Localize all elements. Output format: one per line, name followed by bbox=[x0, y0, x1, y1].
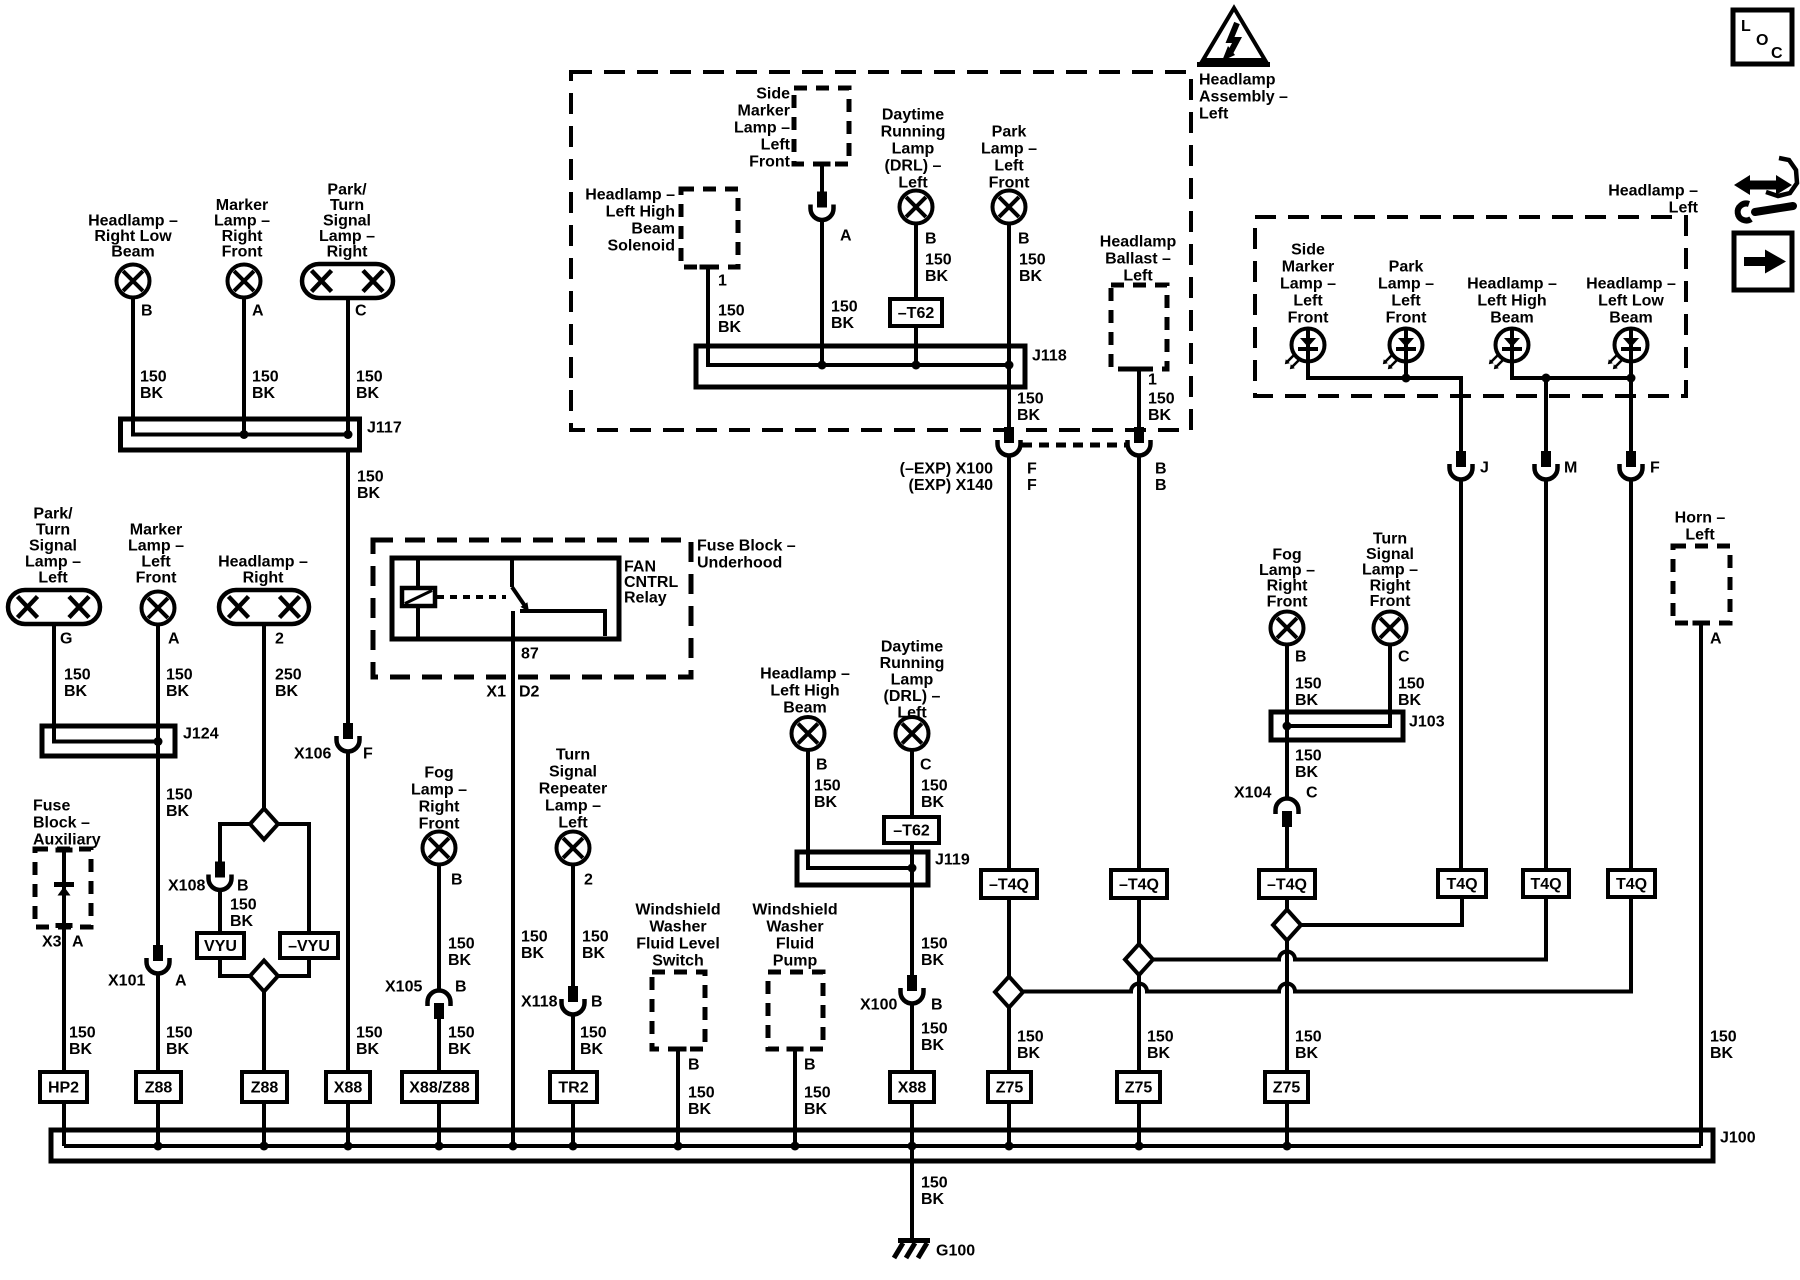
svg-text:Running: Running bbox=[880, 655, 945, 672]
svg-text:Right Low: Right Low bbox=[94, 228, 172, 245]
svg-text:Headlamp –: Headlamp – bbox=[760, 665, 850, 682]
svg-text:Right: Right bbox=[419, 798, 461, 815]
svg-text:B: B bbox=[688, 1056, 700, 1073]
svg-text:Marker: Marker bbox=[738, 102, 790, 119]
svg-text:X100: X100 bbox=[860, 996, 897, 1013]
junction dot J117 at park/turn wire bbox=[344, 430, 353, 439]
svg-text:Turn: Turn bbox=[1373, 530, 1407, 547]
svg-text:BK: BK bbox=[814, 794, 838, 811]
wire X88 to J100 bbox=[346, 1102, 350, 1146]
svg-text:150: 150 bbox=[580, 1024, 607, 1041]
junction dot J100 x=158 bbox=[154, 1142, 163, 1151]
fuse element inside Fuse Block - Auxiliary bbox=[62, 850, 66, 1072]
svg-text:150: 150 bbox=[1398, 675, 1425, 692]
svg-text:X104: X104 bbox=[1234, 784, 1271, 801]
wire Z75 to J100 bbox=[1285, 1102, 1289, 1146]
terminal code X88/Z88 bbox=[402, 1072, 477, 1102]
svg-text:A: A bbox=[252, 302, 264, 319]
svg-text:2: 2 bbox=[275, 630, 284, 647]
splice diamond above VYU bbox=[250, 809, 278, 840]
svg-text:1: 1 bbox=[1148, 371, 1157, 388]
splice J124 bbox=[42, 726, 175, 756]
wire washer pump to J100 bbox=[793, 1051, 797, 1146]
wire park lamp through J118 to X100 bbox=[1007, 224, 1011, 428]
relay coil bbox=[402, 588, 435, 606]
svg-text:J117: J117 bbox=[367, 419, 402, 436]
svg-text:Headlamp –: Headlamp – bbox=[585, 186, 675, 203]
code box -T62 (lower) bbox=[884, 817, 939, 843]
junction dot J124 bbox=[154, 737, 163, 746]
svg-text:BK: BK bbox=[252, 385, 276, 402]
svg-text:150: 150 bbox=[448, 1024, 475, 1041]
wire fog lamp to X105 bbox=[437, 865, 441, 992]
svg-text:CNTRL: CNTRL bbox=[624, 574, 678, 591]
wire solenoid to J118 bbox=[708, 269, 1009, 365]
svg-text:BK: BK bbox=[921, 1191, 945, 1208]
svg-text:F: F bbox=[1027, 477, 1037, 494]
svg-text:Lamp –: Lamp – bbox=[411, 781, 467, 798]
svg-text:Marker: Marker bbox=[1282, 258, 1334, 275]
wire HP2 to J100 bbox=[62, 1102, 66, 1146]
svg-text:BK: BK bbox=[688, 1101, 712, 1118]
svg-text:BK: BK bbox=[356, 385, 380, 402]
svg-text:Assembly –: Assembly – bbox=[1199, 88, 1288, 105]
svg-text:BK: BK bbox=[1398, 692, 1422, 709]
svg-text:Running: Running bbox=[881, 123, 946, 140]
wire turn signal to J103 bbox=[1287, 645, 1390, 727]
svg-text:BK: BK bbox=[140, 385, 164, 402]
wire rail T4Q F to X100 diamond bbox=[1023, 897, 1631, 992]
wire X104 to -T4Q bbox=[1285, 826, 1289, 870]
icon arrow box bbox=[1734, 233, 1792, 290]
svg-text:Signal: Signal bbox=[549, 763, 597, 780]
svg-text:B: B bbox=[591, 993, 603, 1010]
wire J to T4Q bbox=[1459, 480, 1463, 871]
svg-text:Park: Park bbox=[1389, 258, 1424, 275]
svg-text:Left: Left bbox=[1123, 267, 1153, 284]
svg-text:Front: Front bbox=[1267, 593, 1309, 610]
junction dot J100 x=1009 bbox=[1005, 1142, 1014, 1151]
wire Park/Turn Signal Lamp Left to J124 bbox=[54, 624, 158, 742]
terminal code Z88 bbox=[136, 1072, 181, 1102]
code box T4Q (F) bbox=[1608, 870, 1655, 897]
wire side marker to connector bbox=[820, 166, 824, 192]
code box -T62 (upper) bbox=[890, 299, 942, 326]
relay switch common lead bbox=[510, 558, 514, 587]
svg-text:Relay: Relay bbox=[624, 589, 667, 606]
svg-text:BK: BK bbox=[166, 803, 190, 820]
splice J103 bbox=[1271, 712, 1403, 740]
wire Z75 to J100 bbox=[1007, 1102, 1011, 1146]
svg-text:M: M bbox=[1564, 459, 1577, 476]
svg-text:150: 150 bbox=[718, 302, 745, 319]
svg-text:Beam: Beam bbox=[631, 220, 675, 237]
wire ballast to connector B bbox=[1137, 371, 1141, 427]
svg-text:Right: Right bbox=[222, 228, 264, 245]
svg-text:Lamp –: Lamp – bbox=[1362, 562, 1418, 579]
svg-text:Ballast –: Ballast – bbox=[1105, 250, 1171, 267]
wire X101 to Z88 bbox=[156, 974, 160, 1073]
svg-text:X105: X105 bbox=[385, 978, 422, 995]
svg-text:150: 150 bbox=[921, 935, 948, 952]
svg-text:BK: BK bbox=[804, 1101, 828, 1118]
junction dot J119 bbox=[908, 864, 917, 873]
svg-text:X118: X118 bbox=[521, 993, 558, 1010]
svg-text:B: B bbox=[816, 756, 828, 773]
junction dot J100 x=1287 bbox=[1283, 1142, 1292, 1151]
terminal code TR2 bbox=[550, 1072, 597, 1102]
svg-text:–T62: –T62 bbox=[893, 822, 930, 839]
svg-text:Right: Right bbox=[243, 569, 285, 586]
svg-text:150: 150 bbox=[64, 666, 91, 683]
svg-text:150: 150 bbox=[166, 1024, 193, 1041]
svg-text:B: B bbox=[1018, 230, 1030, 247]
svg-text:BK: BK bbox=[521, 945, 545, 962]
svg-text:Pump: Pump bbox=[773, 952, 818, 969]
svg-text:T4Q: T4Q bbox=[1446, 876, 1477, 893]
junction dot J100 x=348 bbox=[344, 1142, 353, 1151]
svg-text:BK: BK bbox=[69, 1041, 93, 1058]
svg-text:Lamp –: Lamp – bbox=[734, 119, 790, 136]
svg-text:Side: Side bbox=[1291, 241, 1325, 258]
svg-text:VYU: VYU bbox=[204, 938, 237, 955]
splice diamond ballast line bbox=[1125, 944, 1153, 975]
svg-text:A: A bbox=[1710, 630, 1722, 647]
svg-text:150: 150 bbox=[356, 1024, 383, 1041]
svg-text:Marker: Marker bbox=[130, 521, 182, 538]
connector X105 bbox=[428, 991, 451, 1019]
svg-text:Signal: Signal bbox=[1366, 546, 1414, 563]
svg-text:F: F bbox=[1027, 460, 1037, 477]
svg-text:Front: Front bbox=[749, 153, 791, 170]
svg-text:Fluid Level: Fluid Level bbox=[636, 935, 720, 952]
svg-text:B: B bbox=[1155, 477, 1167, 494]
junction dot J100 x=795 bbox=[791, 1142, 800, 1151]
svg-text:150: 150 bbox=[1295, 747, 1322, 764]
svg-text:BK: BK bbox=[921, 952, 945, 969]
svg-text:BK: BK bbox=[1295, 1045, 1319, 1062]
wire repeater lamp to X118 bbox=[571, 865, 575, 987]
svg-text:Beam: Beam bbox=[783, 699, 827, 716]
wire -T62 through J119 to X100 bbox=[910, 843, 914, 976]
relay actuation dashed link bbox=[437, 595, 506, 599]
wire X106 to X88 bbox=[346, 752, 350, 1073]
svg-text:Fog: Fog bbox=[424, 764, 453, 781]
svg-text:Left: Left bbox=[1293, 292, 1323, 309]
junction dot J100 x=264 bbox=[260, 1142, 269, 1151]
svg-text:J: J bbox=[1480, 459, 1489, 476]
svg-text:B: B bbox=[1295, 648, 1307, 665]
svg-text:BK: BK bbox=[1148, 407, 1172, 424]
svg-text:Repeater: Repeater bbox=[539, 780, 607, 797]
wire Marker Lamp Left Front through J124 to X101 bbox=[156, 625, 160, 946]
svg-text:Headlamp: Headlamp bbox=[1199, 71, 1276, 88]
svg-text:Left Low: Left Low bbox=[1598, 292, 1664, 309]
connector A inside headlamp assembly bbox=[811, 192, 834, 221]
svg-text:Headlamp –: Headlamp – bbox=[1586, 275, 1676, 292]
svg-text:150: 150 bbox=[1710, 1028, 1737, 1045]
svg-text:X88/Z88: X88/Z88 bbox=[409, 1079, 470, 1096]
junction dot J100 x=573 bbox=[569, 1142, 578, 1151]
svg-text:BK: BK bbox=[166, 683, 190, 700]
svg-text:Front: Front bbox=[222, 243, 264, 260]
svg-text:250: 250 bbox=[275, 666, 302, 683]
connector F bbox=[1620, 451, 1643, 480]
svg-text:BK: BK bbox=[1017, 407, 1041, 424]
svg-text:J124: J124 bbox=[183, 725, 219, 742]
svg-text:Beam: Beam bbox=[1490, 309, 1534, 326]
svg-text:BK: BK bbox=[921, 1037, 945, 1054]
svg-text:Left High: Left High bbox=[1477, 292, 1546, 309]
svg-text:Right: Right bbox=[1267, 578, 1309, 595]
wire X88 to J100 and ground bbox=[910, 1102, 914, 1239]
svg-text:HP2: HP2 bbox=[48, 1079, 79, 1096]
terminal code HP2 bbox=[40, 1072, 87, 1102]
junction dot J118 side marker bbox=[818, 361, 827, 370]
svg-text:F: F bbox=[363, 745, 373, 762]
svg-text:Front: Front bbox=[1386, 309, 1428, 326]
wire J117 to X106 bbox=[346, 450, 350, 724]
code box T4Q (M) bbox=[1523, 870, 1569, 897]
wire -T4Q to diamond bbox=[1007, 898, 1011, 977]
svg-text:Lamp –: Lamp – bbox=[545, 797, 601, 814]
svg-text:Daytime: Daytime bbox=[881, 638, 943, 655]
svg-text:150: 150 bbox=[1148, 390, 1175, 407]
svg-text:150: 150 bbox=[831, 298, 858, 315]
svg-text:B: B bbox=[804, 1056, 816, 1073]
svg-text:B: B bbox=[237, 877, 249, 894]
svg-text:87: 87 bbox=[521, 645, 539, 662]
connector X106 bbox=[337, 723, 360, 752]
wire X88/Z88 to J100 bbox=[437, 1102, 441, 1146]
wire horn to J100 bbox=[1699, 625, 1703, 1146]
svg-text:F: F bbox=[1650, 459, 1660, 476]
svg-text:Fog: Fog bbox=[1272, 546, 1301, 563]
svg-text:B: B bbox=[925, 230, 937, 247]
wire F to T4Q bbox=[1629, 480, 1633, 871]
svg-text:Lamp –: Lamp – bbox=[25, 553, 81, 570]
svg-text:BK: BK bbox=[580, 1041, 604, 1058]
code box VYU bbox=[197, 933, 244, 958]
wire X105 to X88/Z88 bbox=[437, 1018, 441, 1072]
warning triangle icon bbox=[1197, 8, 1270, 65]
svg-text:X88: X88 bbox=[898, 1079, 927, 1096]
svg-text:Fluid: Fluid bbox=[776, 935, 814, 952]
svg-text:2: 2 bbox=[584, 871, 593, 888]
svg-text:J103: J103 bbox=[1409, 713, 1445, 730]
wire diamond to X108 branch bbox=[220, 824, 250, 862]
svg-text:X108: X108 bbox=[168, 877, 205, 894]
svg-text:Headlamp –: Headlamp – bbox=[218, 553, 308, 570]
relay U1 FAN CNTRL Relay body bbox=[392, 558, 619, 639]
connector M bbox=[1535, 451, 1558, 480]
svg-text:–T62: –T62 bbox=[898, 305, 935, 322]
terminal code Z75 (left) bbox=[988, 1072, 1031, 1102]
svg-text:Lamp –: Lamp – bbox=[319, 228, 375, 245]
svg-text:Windshield: Windshield bbox=[752, 901, 837, 918]
svg-text:Washer: Washer bbox=[766, 918, 823, 935]
svg-text:150: 150 bbox=[582, 928, 609, 945]
svg-text:BK: BK bbox=[166, 1041, 190, 1058]
svg-text:Front: Front bbox=[1288, 309, 1330, 326]
svg-text:X88: X88 bbox=[334, 1079, 363, 1096]
wire Z88 to J100 bbox=[156, 1102, 160, 1146]
svg-text:Washer: Washer bbox=[649, 918, 706, 935]
svg-text:–T4Q: –T4Q bbox=[1267, 876, 1307, 893]
svg-text:Lamp: Lamp bbox=[892, 140, 935, 157]
relay coil leads bbox=[416, 558, 420, 639]
svg-text:B: B bbox=[451, 871, 463, 888]
svg-text:Left: Left bbox=[141, 553, 171, 570]
junction dot J100 x=439 bbox=[435, 1142, 444, 1151]
svg-text:B: B bbox=[1155, 460, 1167, 477]
svg-text:O: O bbox=[1756, 32, 1768, 49]
svg-text:X106: X106 bbox=[294, 745, 331, 762]
svg-text:150: 150 bbox=[1147, 1028, 1174, 1045]
connector J bbox=[1450, 451, 1473, 480]
svg-text:(–EXP) X100: (–EXP) X100 bbox=[900, 460, 993, 477]
svg-text:BK: BK bbox=[1295, 764, 1319, 781]
svg-text:BK: BK bbox=[921, 794, 945, 811]
svg-text:150: 150 bbox=[814, 777, 841, 794]
svg-text:150: 150 bbox=[166, 786, 193, 803]
svg-text:J118: J118 bbox=[1032, 347, 1067, 364]
splice diamond below VYU bbox=[250, 961, 278, 992]
svg-text:150: 150 bbox=[230, 896, 257, 913]
svg-text:Z88: Z88 bbox=[145, 1079, 173, 1096]
wire low beam to connector F bbox=[1629, 362, 1633, 452]
svg-text:BK: BK bbox=[64, 683, 88, 700]
svg-text:Fuse: Fuse bbox=[33, 797, 70, 814]
svg-text:Headlamp –: Headlamp – bbox=[1608, 182, 1698, 199]
wire high beam to J119 bbox=[808, 750, 912, 868]
svg-text:Left: Left bbox=[1391, 292, 1421, 309]
svg-text:Lamp –: Lamp – bbox=[214, 212, 270, 229]
svg-text:150: 150 bbox=[1017, 390, 1044, 407]
svg-text:FAN: FAN bbox=[624, 558, 656, 575]
svg-text:Z75: Z75 bbox=[996, 1079, 1024, 1096]
svg-text:150: 150 bbox=[357, 468, 384, 485]
junction dot J100 x=678 bbox=[674, 1142, 683, 1151]
svg-text:X3: X3 bbox=[42, 933, 62, 950]
svg-text:BK: BK bbox=[1017, 1045, 1041, 1062]
svg-text:Lamp –: Lamp – bbox=[1378, 275, 1434, 292]
wire Marker Lamp Right Front to J117 bbox=[242, 298, 246, 435]
connector X104 bbox=[1276, 799, 1299, 828]
svg-text:Lamp –: Lamp – bbox=[1259, 562, 1315, 579]
svg-text:A: A bbox=[840, 227, 852, 244]
svg-text:G: G bbox=[60, 630, 72, 647]
wire lower diamond to Z88 bbox=[262, 992, 266, 1073]
svg-text:C: C bbox=[1398, 648, 1410, 665]
connector ballast pin B bbox=[1128, 427, 1151, 456]
svg-text:T4Q: T4Q bbox=[1616, 876, 1647, 893]
junction dot J100 x=912 bbox=[908, 1142, 917, 1151]
svg-text:C: C bbox=[355, 302, 367, 319]
wire X108 to VYU bbox=[218, 890, 222, 933]
svg-text:D2: D2 bbox=[519, 683, 540, 700]
wire M drop bbox=[1544, 378, 1548, 452]
svg-text:Headlamp –: Headlamp – bbox=[88, 212, 178, 229]
relay contact wire bbox=[520, 611, 605, 636]
wire VYU to lower diamond bbox=[220, 958, 250, 976]
svg-text:J119: J119 bbox=[935, 851, 970, 868]
svg-text:Beam: Beam bbox=[111, 243, 155, 260]
splice J117 bbox=[121, 419, 360, 450]
icon diagnostic arrows and wrench bbox=[1734, 158, 1797, 221]
wire ballast B to -T4Q bbox=[1137, 456, 1141, 871]
svg-text:Left: Left bbox=[38, 569, 68, 586]
svg-text:Fuse Block –: Fuse Block – bbox=[697, 537, 796, 554]
wire Z88 to J100 bbox=[262, 1102, 266, 1146]
ground bus J100 inner wire bbox=[64, 1144, 1701, 1148]
code box -T4Q (right) bbox=[1259, 870, 1315, 898]
junction dot M drop bbox=[1542, 374, 1551, 383]
terminal code Z75 (right) bbox=[1265, 1072, 1308, 1102]
svg-text:Z75: Z75 bbox=[1125, 1079, 1153, 1096]
svg-text:150: 150 bbox=[804, 1084, 831, 1101]
svg-text:150: 150 bbox=[1295, 1028, 1322, 1045]
wire DRL to -T62 bbox=[914, 224, 918, 300]
svg-text:C: C bbox=[1306, 784, 1318, 801]
svg-text:B: B bbox=[931, 996, 943, 1013]
svg-text:150: 150 bbox=[448, 935, 475, 952]
headlamp left dashed box bbox=[1255, 217, 1686, 396]
terminal code X88 (right) bbox=[890, 1072, 934, 1102]
dashed link between connector halves bbox=[1022, 443, 1126, 448]
svg-text:Horn –: Horn – bbox=[1675, 509, 1726, 526]
wire diamond to Z75 bbox=[1007, 1008, 1011, 1073]
svg-text:Turn: Turn bbox=[36, 521, 70, 538]
wire connector A to J118 bbox=[820, 220, 824, 365]
svg-text:1: 1 bbox=[718, 272, 727, 289]
wire rail T4Q M to ballast diamond bbox=[1153, 897, 1546, 960]
svg-text:150: 150 bbox=[521, 928, 548, 945]
svg-text:Right: Right bbox=[327, 243, 369, 260]
svg-text:L: L bbox=[1741, 18, 1751, 35]
svg-text:G100: G100 bbox=[936, 1242, 975, 1259]
svg-text:Park/: Park/ bbox=[327, 181, 367, 198]
svg-text:BK: BK bbox=[448, 952, 472, 969]
svg-text:A: A bbox=[175, 972, 187, 989]
svg-text:BK: BK bbox=[1710, 1045, 1734, 1062]
connector X101 bbox=[147, 945, 170, 974]
svg-text:Left: Left bbox=[994, 157, 1024, 174]
svg-text:–T4Q: –T4Q bbox=[989, 876, 1029, 893]
svg-text:Beam: Beam bbox=[1609, 309, 1653, 326]
svg-text:Windshield: Windshield bbox=[635, 901, 720, 918]
svg-text:BK: BK bbox=[831, 315, 855, 332]
svg-text:(EXP) X140: (EXP) X140 bbox=[909, 477, 994, 494]
svg-text:Signal: Signal bbox=[323, 212, 371, 229]
fuse block underhood dashed box bbox=[373, 540, 691, 677]
svg-text:BK: BK bbox=[356, 1041, 380, 1058]
svg-text:150: 150 bbox=[356, 368, 383, 385]
wire high beam to low beam rail bbox=[1512, 362, 1631, 379]
terminal code Z75 (middle) bbox=[1117, 1072, 1160, 1102]
svg-text:Left High: Left High bbox=[606, 203, 675, 220]
svg-text:Underhood: Underhood bbox=[697, 554, 782, 571]
svg-text:Left: Left bbox=[761, 136, 791, 153]
svg-text:Headlamp: Headlamp bbox=[1100, 233, 1177, 250]
svg-text:A: A bbox=[72, 933, 84, 950]
headlamp assembly left dashed box bbox=[571, 72, 1191, 430]
svg-text:Park: Park bbox=[992, 123, 1027, 140]
wire Headlamp Right Low Beam to J117 bbox=[133, 298, 348, 435]
splice J118 bbox=[696, 346, 1025, 387]
wire relay pin 87 / D2 to J100 bbox=[511, 611, 515, 1146]
svg-text:Headlamp –: Headlamp – bbox=[1467, 275, 1557, 292]
